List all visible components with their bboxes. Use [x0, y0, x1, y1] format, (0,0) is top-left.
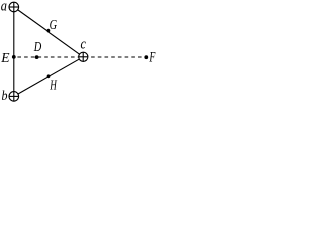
svg-text:c: c	[81, 36, 87, 52]
svg-text:b: b	[2, 89, 8, 104]
svg-text:H: H	[50, 78, 58, 93]
svg-text:E: E	[0, 51, 10, 66]
svg-text:F: F	[149, 49, 156, 65]
svg-text:a: a	[1, 0, 7, 14]
svg-text:D: D	[33, 40, 41, 55]
svg-text:G: G	[50, 18, 58, 33]
